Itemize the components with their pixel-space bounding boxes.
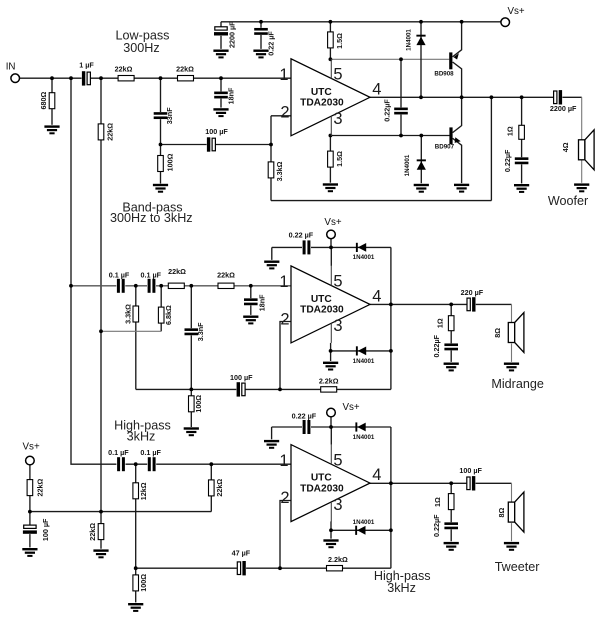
wire: right riser x=390.9 (390, 427, 392, 568)
ground top-left (264, 261, 279, 270)
svg-text:Vs+: Vs+ (324, 217, 341, 228)
resistor 1.5 ohm (upper) (328, 32, 334, 48)
resistor 22k (Vs+ divider) (27, 480, 33, 496)
transistor Q1 BD908 (434, 52, 459, 77)
svg-text:8Ω: 8Ω (497, 507, 506, 517)
capacitor 0.22uF (midrange zobel) (444, 343, 458, 350)
ground under bias 100uF (22, 548, 37, 557)
capacitor 100uF (feedback) (236, 382, 245, 397)
capacitor 0.1uF (input 2) (147, 278, 156, 293)
wire: midrange feed (511, 304, 513, 322)
wire: pin5 rail y=59.3 (330, 58, 449, 60)
wire: midrange ground stub (511, 344, 513, 362)
ground under midrange zobel (444, 363, 459, 372)
capacitor 0.22uF (supply) (302, 240, 311, 255)
svg-text:1N4001: 1N4001 (353, 519, 375, 526)
svg-text:1Ω: 1Ω (506, 126, 515, 136)
svg-text:220 µF: 220 µF (461, 288, 484, 297)
svg-text:BD908: BD908 (434, 70, 454, 77)
speaker Tweeter 8 ohm (508, 492, 524, 532)
wire: 0.22uF mid branch x=401 (400, 59, 402, 135)
capacitor 1uF (82, 71, 91, 86)
capacitor 100uF (bias decoupling) (23, 525, 38, 534)
resistor 3.3k (feedback) (268, 162, 274, 178)
wire: bus A vertical x=71 (71, 78, 116, 464)
svg-text:22kΩ: 22kΩ (115, 65, 133, 74)
op-amp U2 UTC TDA2030 (279, 266, 381, 343)
svg-text:1N4001: 1N4001 (404, 154, 411, 176)
capacitor 2200uF (supply) (214, 27, 229, 36)
resistor 1 ohm (midrange zobel) (448, 316, 454, 331)
ground under 100 ohm (184, 427, 199, 436)
resistor 1.5 ohm (lower) (328, 151, 334, 167)
svg-text:300Hz to 3kHz: 300Hz to 3kHz (110, 211, 193, 225)
svg-text:18nF: 18nF (227, 87, 236, 104)
wire: left Vs+ branch (29, 465, 31, 548)
svg-text:12kΩ: 12kΩ (139, 482, 148, 500)
diode 1N4001 (upper) (355, 422, 365, 431)
wire: feedback row y=568.2 (136, 567, 391, 569)
svg-text:0.22µF: 0.22µF (432, 514, 441, 537)
resistor 22k (series 1) (118, 76, 134, 81)
wire: 1.5 ohm upper stubs (329, 22, 331, 60)
svg-text:Midrange: Midrange (491, 377, 544, 391)
svg-text:22kΩ: 22kΩ (168, 267, 186, 276)
svg-text:100Ω: 100Ω (194, 395, 203, 413)
wire: 18nF branch (220, 78, 222, 107)
wire: zobel branch x=451.2 (450, 483, 452, 541)
wire: 3.3nF branch x=191.3 (190, 286, 192, 390)
svg-text:22kΩ: 22kΩ (176, 65, 194, 74)
resistor 22k (bus B bottom) (98, 524, 104, 540)
svg-text:1.5Ω: 1.5Ω (335, 151, 344, 167)
transistor Q2 BD907 (435, 127, 461, 150)
svg-text:0.1 µF: 0.1 µF (141, 270, 162, 279)
diode 1N4001 (lower) (356, 346, 366, 355)
wire: pin5 extension (330, 427, 332, 445)
capacitor 33nF (154, 112, 168, 119)
wire: row y=144.5 (161, 144, 272, 146)
wire: IN row y=78 (20, 77, 292, 79)
svg-text:1Ω: 1Ω (433, 497, 442, 507)
ground under pin3 (323, 362, 338, 371)
ground under tweeter zobel (444, 542, 459, 551)
wire: input row y=464.2 (116, 463, 291, 465)
wire: pin3 to ground (330, 521, 332, 538)
wire: pin3 rail y=135.5 (330, 135, 449, 137)
svg-text:100 µF: 100 µF (205, 127, 228, 136)
wire: 100 ohm branch (135, 568, 137, 602)
wire: diode D1 branch x=421 (420, 22, 422, 98)
resistor 680 ohm (49, 93, 55, 109)
ground under supply 0.22uF (253, 50, 268, 59)
capacitor 220uF (midrange coupling) (467, 297, 476, 312)
wire: row y=331.3 (101, 330, 161, 332)
svg-text:0.22µF: 0.22µF (503, 149, 512, 172)
svg-text:47 µF: 47 µF (232, 548, 251, 557)
wire: pin3 to ground (330, 343, 332, 361)
svg-text:2.2kΩ: 2.2kΩ (319, 376, 339, 385)
svg-text:100 µF: 100 µF (459, 466, 482, 475)
diode D1 1N4001 (to Vs+) (416, 35, 425, 45)
wire: 1.5 ohm lower stubs (329, 136, 331, 183)
wire: output rail y=97.3 (370, 96, 582, 98)
diode 1N4001 (upper) (356, 243, 366, 252)
svg-text:22kΩ: 22kΩ (215, 479, 224, 497)
svg-text:6.8kΩ: 6.8kΩ (164, 305, 173, 325)
resistor 22k (series 2) (178, 76, 194, 81)
svg-text:1N4001: 1N4001 (405, 29, 412, 51)
svg-text:0.22 µF: 0.22 µF (267, 31, 276, 56)
node: junction dots stage 2 (69, 246, 453, 392)
wire: top supply rail y=21.8 (221, 21, 501, 23)
wire: pin2 horizontal (271, 115, 291, 117)
resistor 22k (bus B shunt) (98, 124, 104, 140)
wire: top row y=247.4 (272, 246, 391, 248)
diode 1N4001 (lower) (355, 526, 365, 535)
svg-text:3.3kΩ: 3.3kΩ (275, 161, 284, 181)
ground under woofer zobel (514, 184, 529, 193)
wire: right riser x=390.9 (390, 247, 392, 389)
op-amp U3 UTC TDA2030 (279, 445, 381, 522)
svg-text:1Ω: 1Ω (435, 318, 444, 328)
wire: diode D2 branch x=421.3 (420, 136, 422, 184)
svg-text:2.2kΩ: 2.2kΩ (328, 555, 348, 564)
terminal Vs+ (stage 2) (327, 230, 336, 239)
wire: 0.22uF top stubs (260, 22, 262, 49)
ground under midrange (504, 363, 519, 372)
wire: 18nF branch (250, 286, 252, 315)
capacitor 100uF (feedback) (207, 137, 216, 152)
diode D2 1N4001 (to ground) (417, 159, 426, 169)
svg-text:3.3nF: 3.3nF (196, 322, 205, 341)
svg-text:0.1 µF: 0.1 µF (140, 448, 161, 457)
wire: 100 ohm branch (190, 389, 192, 427)
node: junction dots stage 1 (50, 20, 523, 147)
wire: feedback riser x=491.4 (490, 97, 492, 200)
wire: Vs+ stub (330, 417, 332, 427)
wire: output rail y=483.3 (369, 482, 511, 484)
svg-text:22kΩ: 22kΩ (88, 523, 97, 541)
resistor 1 ohm (woofer zobel) (519, 125, 525, 139)
wire: 6.8k branch x=161.2 (160, 286, 162, 332)
svg-text:0.1 µF: 0.1 µF (109, 270, 130, 279)
wire: pin2 feedback vertical x=271 (270, 116, 272, 201)
resistor 22k (series 2) (218, 283, 234, 288)
svg-text:2200 µF: 2200 µF (550, 104, 577, 113)
svg-text:BD907: BD907 (435, 144, 455, 151)
resistor 22k (shunt) (209, 480, 215, 496)
ground under BD907 (454, 184, 469, 193)
svg-text:22kΩ: 22kΩ (36, 478, 45, 496)
capacitor 0.1uF (input 1) (116, 278, 125, 293)
wire: tweeter feed (511, 483, 513, 502)
wire: feedback bottom y=200.6 (271, 200, 491, 202)
resistor 100 ohm (158, 156, 164, 172)
resistor 1 ohm (tweeter zobel) (448, 494, 454, 510)
svg-text:Vs+: Vs+ (23, 441, 40, 452)
capacitor 0.1uF (input 1) (117, 457, 126, 472)
wire: 22k shunt branch x=211.3 (210, 464, 212, 511)
svg-text:3.3kΩ: 3.3kΩ (123, 304, 132, 324)
ground under pin3 (323, 539, 338, 548)
wire: woofer ground stub (581, 157, 583, 183)
svg-text:Vs+: Vs+ (508, 6, 525, 17)
wire: output rail y=304.4 (370, 303, 512, 305)
ground under 18nF (213, 108, 228, 117)
svg-text:18nF: 18nF (257, 294, 266, 311)
resistor 2.2k (feedback) (321, 387, 337, 392)
svg-text:IN: IN (6, 62, 16, 73)
op-amp U1 UTC TDA2030 (279, 59, 381, 136)
resistor 6.8k (shunt) (158, 307, 164, 323)
capacitor 0.1uF (input 2) (147, 457, 156, 472)
svg-text:0.22µF: 0.22µF (383, 99, 392, 122)
node: junction dots stage 3 (28, 425, 453, 570)
svg-text:100 µF: 100 µF (41, 518, 50, 541)
ground under bus B 22k (93, 549, 108, 558)
wire: top row y=427 (272, 426, 391, 428)
wire: top-left ground stub (271, 427, 273, 439)
wire: tweeter ground stub (511, 523, 513, 541)
speaker Woofer 4 ohm (579, 130, 595, 170)
capacitor 2200uF (woofer coupling) (553, 90, 562, 105)
wire: zobel branch x=451.2 (450, 304, 452, 362)
capacitor 18nF (214, 91, 228, 98)
ground under 18nF (243, 316, 258, 325)
wire: top-left ground stub (271, 247, 273, 260)
resistor 100 ohm (189, 396, 195, 412)
svg-text:100Ω: 100Ω (165, 153, 174, 171)
wire: zobel 1 ohm branch x=521.6 (521, 97, 523, 183)
wire: BD908 emitter/collector (453, 22, 462, 57)
ground under D2 (414, 184, 429, 193)
capacitor 0.22uF (tweeter zobel) (444, 522, 458, 529)
capacitor 0.22uF (supply) (302, 420, 311, 435)
wire: pin2 connection (280, 322, 292, 390)
svg-text:3kHz: 3kHz (127, 429, 156, 443)
svg-text:1N4001: 1N4001 (353, 434, 375, 441)
wire: 3.3k branch x=135.8 (135, 286, 137, 390)
capacitor 18nF (244, 298, 258, 305)
ground under 100 ohm (153, 184, 168, 193)
resistor 3.3k (shunt) (133, 306, 139, 322)
svg-text:100Ω: 100Ω (139, 574, 148, 592)
wire: lower diode row y=530.3 (331, 529, 391, 531)
ground under 2200uF (213, 50, 228, 59)
resistor 22k (series 1) (168, 283, 184, 288)
svg-text:300Hz: 300Hz (123, 41, 159, 55)
ground top-left (264, 440, 279, 449)
svg-text:33nF: 33nF (165, 107, 174, 124)
svg-text:1.5Ω: 1.5Ω (335, 33, 344, 49)
svg-text:8Ω: 8Ω (493, 328, 502, 338)
svg-text:22kΩ: 22kΩ (217, 271, 235, 280)
speaker Midrange 8 ohm (508, 313, 524, 353)
resistor 12k (shunt) (133, 483, 139, 499)
resistor 100 ohm (133, 575, 139, 591)
ground under lower 1.5 ohm (323, 183, 338, 192)
wire: BD907 collector/emitter (453, 97, 462, 132)
wire: 12k branch x=135.7 (135, 464, 137, 568)
wire: woofer feed (581, 97, 583, 140)
wire: 100 ohm branch (160, 145, 162, 184)
wire: 2200uF top stubs (220, 22, 222, 49)
terminal IN (11, 74, 20, 83)
wire: row y=511.6 (30, 511, 211, 513)
capacitor 0.22uF (supply) (254, 28, 268, 35)
wire: 33nF branch (160, 78, 162, 144)
svg-text:0.22µF: 0.22µF (432, 334, 441, 357)
svg-text:1 µF: 1 µF (79, 60, 94, 69)
resistor 2.2k (feedback) (327, 566, 343, 571)
wire: input row y=285.8 (71, 285, 291, 287)
capacitor 100uF (tweeter coupling) (466, 476, 475, 491)
svg-text:1N4001: 1N4001 (353, 358, 375, 365)
terminal Vs+ (stage 1) (501, 18, 510, 27)
ground under 680 ohm (44, 125, 59, 134)
wire: bus B vertical x=101 (100, 78, 102, 549)
wire: feedback row y=389.4 (136, 388, 391, 390)
svg-text:0.22 µF: 0.22 µF (292, 411, 317, 420)
capacitor 0.22uF (woofer zobel) (515, 157, 529, 164)
ground under woofer (574, 183, 589, 192)
terminal Vs+ (stage 3) (327, 408, 336, 417)
capacitor 47uF (feedback) (237, 561, 246, 576)
wire: Vs+ stub (330, 239, 332, 248)
terminal Vs+ (left) (26, 456, 35, 465)
wire: lower diode row y=350.9 (331, 350, 391, 352)
svg-text:22kΩ: 22kΩ (105, 123, 114, 141)
ground under 100 ohm (128, 603, 143, 612)
capacitor 0.22uF (between rails) (394, 107, 408, 114)
svg-text:680Ω: 680Ω (39, 91, 48, 109)
svg-text:2200 µF: 2200 µF (228, 21, 237, 48)
svg-text:4Ω: 4Ω (561, 142, 570, 152)
svg-text:3kHz: 3kHz (387, 581, 416, 595)
svg-text:Woofer: Woofer (548, 194, 588, 208)
svg-text:Vs+: Vs+ (343, 402, 360, 413)
wire: pin2 connection (280, 501, 292, 569)
svg-text:0.22 µF: 0.22 µF (289, 230, 314, 239)
svg-text:Tweeter: Tweeter (495, 560, 540, 574)
wire: pin5 extension (330, 247, 332, 266)
wire: 680 ohm stubs (51, 78, 53, 125)
svg-text:100 µF: 100 µF (230, 373, 253, 382)
svg-text:1N4001: 1N4001 (353, 254, 375, 261)
svg-text:0.1 µF: 0.1 µF (108, 448, 129, 457)
ground under tweeter (504, 542, 519, 551)
capacitor 3.3nF (184, 328, 198, 335)
